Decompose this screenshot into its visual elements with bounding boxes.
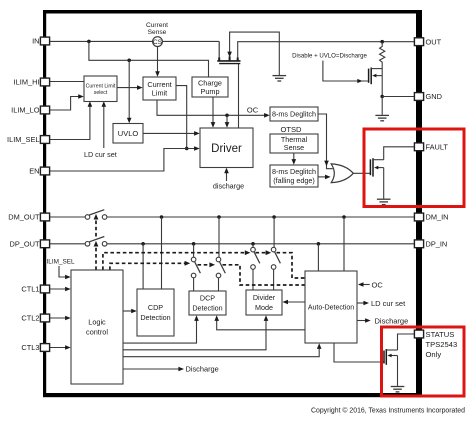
svg-text:GND: GND [426, 92, 442, 101]
pin CTL2 [40, 314, 49, 322]
block UVLO [113, 124, 143, 144]
pin CTL1 [40, 285, 49, 293]
transistor Q1 power pass FET [217, 41, 240, 63]
wire LD cur set stub into Current Limit select [103, 106, 105, 148]
ground Q3 source [377, 199, 391, 204]
pin DM_OUT [40, 213, 49, 221]
wire CS to Current Limit [157, 46, 159, 72]
svg-text:Sense: Sense [284, 143, 304, 152]
wire UVLO output to Driver [143, 132, 195, 134]
svg-text:Driver: Driver [211, 143, 242, 155]
sensor CS current sense [146, 22, 168, 46]
svg-text:CTL2: CTL2 [21, 314, 39, 323]
wire DM to Auto-Detection [343, 217, 345, 271]
wire Q4 source to ground [397, 356, 399, 386]
wire DP to DCP switch S3 [193, 244, 195, 257]
wire DP to divider switch S5 [252, 244, 254, 248]
wire Auto-Detection to Q4 gate [334, 343, 384, 362]
wire 8-ms deglitch output to OR gate [318, 114, 333, 169]
svg-text:select: select [94, 90, 108, 96]
switch S6 divider mode switch 2 [271, 247, 280, 269]
svg-text:Detection: Detection [192, 303, 222, 312]
wire Logic bus to Divider Mode [123, 319, 266, 350]
pin GND [414, 93, 423, 101]
pin EN [40, 167, 49, 175]
wire DP to CDP Detection input 1 [142, 244, 144, 289]
wire DP to Auto-Detection [317, 244, 319, 271]
block CDP Detection [137, 289, 174, 336]
pin ILIM_HI [40, 78, 49, 86]
wire DM to CDP Detection input 2 [161, 217, 163, 289]
svg-text:ILIM_HI: ILIM_HI [14, 78, 40, 87]
wire LD cur set output [358, 302, 365, 304]
wire OC input to Auto-Detection [362, 284, 370, 286]
wire DP_OUT to switch [50, 243, 86, 245]
pin DP_OUT [40, 240, 49, 248]
transistor Q2 output discharge FET [369, 68, 383, 97]
resistor discharge pulldown [380, 42, 385, 69]
pin FAULT [414, 143, 423, 151]
svg-text:EN: EN [29, 167, 39, 176]
pin ILIM_LO [40, 106, 49, 114]
wire ILIM_SEL to Current Limit select [50, 106, 90, 140]
wire CTL2 to Logic control [50, 317, 67, 319]
svg-text:control: control [86, 328, 108, 337]
wire UVLO feed drop [128, 60, 130, 119]
svg-text:IN: IN [32, 37, 39, 46]
node DP to auto-detect junction [317, 242, 321, 246]
gate U1 OR gate for fault [331, 164, 353, 183]
wire Q1 body to ground rail [230, 32, 280, 75]
wire Q3 source to ground [383, 168, 385, 199]
wire DM to DCP switch S4 [218, 217, 220, 257]
wire OC from Current Limit bottom [157, 100, 265, 115]
svg-text:Mode: Mode [255, 303, 273, 312]
wire DM_OUT to switch [50, 216, 86, 218]
wire ILIM_HI to Current Limit select [50, 81, 85, 83]
pin OUT [414, 38, 423, 46]
block Current Limit select [84, 76, 117, 102]
wire IN rail CS to pass FET [162, 40, 219, 42]
svg-text:CTL1: CTL1 [21, 285, 39, 294]
svg-text:Divider: Divider [253, 293, 276, 302]
svg-text:Detection: Detection [140, 313, 170, 322]
svg-text:Pump: Pump [200, 87, 219, 96]
wire Auto-Detection to DCP Detection input [217, 319, 305, 330]
svg-text:Limit: Limit [152, 88, 167, 97]
wire ILIM_LO to Current Limit select [50, 97, 80, 111]
wire Q2 source to GND pin [382, 96, 414, 98]
svg-text:OC: OC [247, 106, 259, 115]
wire IN rail from pin to CS sensor [50, 40, 153, 42]
dashed control logic to divider switches [103, 253, 246, 270]
svg-text:OUT: OUT [426, 37, 442, 46]
wire Q4 drain to STATUS pin [398, 334, 415, 350]
IC boundary left border [43, 10, 46, 397]
wire DM rail to DM_IN [107, 216, 414, 218]
IC boundary bottom border [43, 393, 422, 397]
block DCP Detection [189, 291, 226, 315]
switch S3 DCP detection switch 1 [191, 257, 200, 278]
wire DCP switch 2 to DCP Detection [218, 278, 220, 291]
node OUT discharge junction [380, 40, 384, 44]
svg-text:Auto-Detection: Auto-Detection [308, 304, 354, 311]
wire divider switch 2 to Divider Mode [273, 269, 275, 290]
wire EN to Driver [50, 149, 196, 172]
wire Thermal Sense to falling-edge deglitch [293, 153, 295, 161]
node OC to driver junction [225, 114, 229, 118]
svg-text:Disable + UVLO=Discharge: Disable + UVLO=Discharge [292, 53, 367, 60]
svg-text:Discharge: Discharge [375, 316, 409, 325]
ground Q4 source [391, 387, 405, 392]
svg-text:Sense: Sense [148, 29, 167, 36]
dashed control divider to Auto-Detection [277, 253, 306, 278]
wire Discharge output [358, 320, 367, 322]
svg-text:CDP: CDP [148, 303, 163, 312]
pin STATUS [414, 330, 423, 338]
svg-text:8-ms Deglitch: 8-ms Deglitch [272, 110, 316, 119]
wire falling-edge deglitch to OR gate [318, 176, 326, 178]
ground Q2 source [375, 115, 389, 120]
wire Current Limit select to Current Limit [117, 87, 138, 89]
highlight red box STATUS section [382, 327, 465, 396]
transistor Q4 STATUS open-drain FET [384, 349, 398, 365]
wire Charge Pump output to Driver [212, 97, 214, 124]
wire Q2 source to ground [381, 97, 383, 115]
block Divider Mode [246, 290, 282, 315]
wire Q1 to OUT pin rail [238, 42, 415, 58]
block Charge Pump [192, 77, 228, 97]
switch S4 DCP detection switch 2 [216, 257, 225, 278]
node DM to auto-detect junction [342, 215, 346, 219]
dashed control DCP to Auto-Detection [223, 265, 306, 285]
svg-text:UVLO: UVLO [118, 129, 139, 138]
svg-text:TPS2543: TPS2543 [426, 340, 458, 349]
wire IN feed down and across to charge pump [89, 41, 209, 77]
svg-text:DP_IN: DP_IN [426, 239, 448, 248]
svg-text:(falling edge): (falling edge) [273, 176, 315, 185]
block Auto-Detection [305, 271, 357, 343]
label pin STATUS TPS2543 Only [426, 330, 458, 359]
svg-text:discharge: discharge [213, 181, 244, 190]
block Current Limit [143, 77, 176, 100]
svg-text:FAULT: FAULT [426, 142, 449, 151]
wire discharge input to Driver [226, 172, 228, 182]
wire Logic control to CDP Detection [123, 310, 132, 312]
wire DP rail to DP_IN [107, 243, 414, 245]
svg-text:OTSD: OTSD [280, 125, 302, 134]
node DP to divider junction [251, 242, 255, 246]
wire Current Limit output to Driver input node [176, 86, 187, 149]
IC boundary top border [43, 10, 422, 14]
node EN-CurrentLimit junction [185, 147, 189, 151]
svg-text:Discharge: Discharge [186, 365, 219, 374]
svg-text:DP_OUT: DP_OUT [10, 239, 40, 248]
node DM to CDP junction [160, 215, 164, 219]
wire Logic bus to Auto-Detection [123, 347, 319, 356]
svg-text:ILIM_SEL: ILIM_SEL [7, 135, 39, 144]
svg-text:CS: CS [153, 39, 162, 46]
wire Logic bus to DCP Detection [123, 320, 197, 343]
wire OC junction down to Driver [226, 115, 228, 123]
svg-text:CTL3: CTL3 [21, 343, 39, 352]
node DM to DCP junction [217, 215, 221, 219]
pin DM_IN [414, 213, 423, 221]
block Driver [200, 128, 253, 168]
pin DP_IN [414, 240, 423, 248]
switch S1 DM switch [85, 210, 107, 220]
wire DCP switch 1 to DCP Detection [193, 278, 195, 291]
pin ILIM_SEL [40, 136, 49, 144]
wire CTL1 to Logic control [50, 288, 67, 290]
svg-text:Only: Only [426, 350, 442, 359]
svg-text:DCP: DCP [200, 294, 215, 303]
node DP to DCP junction [192, 242, 196, 246]
svg-text:DM_IN: DM_IN [426, 213, 449, 222]
pin CTL3 [40, 344, 49, 352]
wire disable label to Q2 gate [323, 61, 368, 81]
dashed control logic to DCP switches [110, 263, 185, 270]
wire Logic discharge output [123, 368, 180, 370]
highlight red box FAULT section [364, 129, 464, 207]
wire Driver output to pass FET gate [238, 64, 240, 128]
block Logic control [71, 270, 123, 384]
IC boundary right border [416, 10, 422, 397]
svg-text:OC: OC [372, 280, 384, 289]
wire OR gate output to Q3 gate [353, 172, 371, 174]
dashed control logic to DM DP switches [95, 248, 97, 271]
ground Q1 body [273, 76, 287, 81]
block 8-ms Deglitch [270, 107, 318, 121]
svg-text:Current Limit: Current Limit [86, 83, 116, 89]
transistor Q3 FAULT open-drain FET [370, 158, 383, 176]
svg-text:DM_OUT: DM_OUT [8, 213, 40, 222]
svg-text:ILIM_SEL: ILIM_SEL [47, 259, 76, 266]
block Thermal Sense [270, 134, 318, 153]
svg-text:STATUS: STATUS [426, 330, 455, 339]
svg-text:LD cur set: LD cur set [371, 299, 406, 308]
node GND junction [380, 95, 384, 99]
wire DM to divider switch S6 [273, 217, 275, 247]
svg-text:Logic: Logic [88, 318, 106, 327]
pin IN [40, 37, 49, 45]
wire Q3 drain to FAULT pin [384, 147, 415, 160]
block 8-ms Deglitch falling edge [270, 165, 318, 187]
node DM to divider junction [272, 215, 276, 219]
switch S2 DP switch [85, 237, 107, 247]
svg-text:LD cur set: LD cur set [84, 150, 117, 159]
wire divider switch 1 to Divider Mode [252, 269, 254, 290]
wire ILIM_SEL label to Logic control [59, 266, 66, 277]
switch S5 divider mode switch 1 [251, 247, 260, 269]
wire Auto-Detection to Divider Mode [287, 301, 306, 303]
node UVLO feed junction [127, 59, 131, 63]
wire CTL3 to Logic control [50, 347, 67, 349]
svg-text:Copyright © 2016, Texas Instru: Copyright © 2016, Texas Instruments Inco… [311, 406, 465, 414]
node IN feed junction [87, 40, 91, 44]
node DP to CDP junction [141, 242, 145, 246]
svg-text:ILIM_LO: ILIM_LO [11, 106, 40, 115]
